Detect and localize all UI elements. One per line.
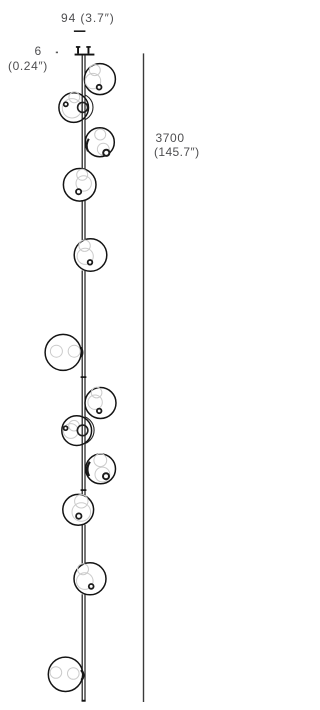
cavity crescent S3: [87, 139, 89, 152]
stem (S11 to bottom): [82, 594, 86, 701]
canopy plate: [75, 54, 95, 56]
dim tick top (94mm width mark): [74, 30, 86, 32]
canopy screw right: [88, 47, 90, 54]
attachment crescent S12: [81, 670, 83, 680]
sphere S11 (on stem, y~579): [74, 563, 106, 595]
cavity crescent S9: [87, 462, 89, 476]
sphere S10 (on stem, y~510): [63, 494, 94, 525]
dim text (145.7"): [154, 145, 199, 159]
joint ring S8 at stem: [77, 425, 88, 436]
sphere S6 (left, y~352): [45, 334, 82, 370]
dim text 6: [35, 44, 42, 58]
stem (S10 to S11): [82, 525, 86, 564]
dim text (0.24"): [8, 59, 48, 73]
dim line 3700 vertical right: [143, 53, 144, 702]
sphere S1 (top right, y~79): [84, 64, 115, 95]
sphere S9 (right, y~469): [86, 454, 116, 484]
stem (S5 to S6/S7 zone): [82, 271, 86, 388]
sphere S3 (right, y~142): [85, 128, 114, 157]
sphere S4 (on stem, y~185): [63, 169, 96, 202]
stem joint tick y490: [81, 489, 87, 491]
attachment crescent S6: [81, 348, 83, 358]
stem (upper part, above S4): [82, 55, 86, 170]
stem joint tick y377: [81, 376, 87, 378]
behind-sphere B1 arcs (at stem, y~107): [66, 94, 93, 121]
sphere S8 (left, y~431): [62, 416, 92, 446]
dim text 94 (3.7"): [61, 11, 115, 25]
joint ring S2 at stem: [78, 102, 88, 112]
sphere S2 (left, y~108): [59, 92, 89, 122]
sphere S7 (right, y~403): [85, 387, 116, 418]
stem end cap: [82, 700, 86, 702]
dim text 3700: [156, 131, 185, 145]
canopy screw left: [77, 47, 79, 54]
stem (S4 to S5): [82, 200, 86, 240]
dim leader dot (6mm stem): [56, 52, 58, 54]
behind-sphere B2 arcs (at stem, y~431): [66, 416, 95, 445]
sphere S5 (on stem, y~255): [74, 239, 107, 272]
stem (through S8 zone down to S10): [82, 388, 86, 496]
sphere S12 (left, y~674): [48, 657, 83, 691]
